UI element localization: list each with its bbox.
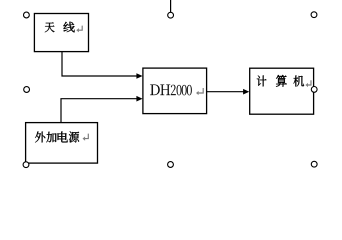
text glyph 电: [58, 132, 68, 143]
handle circle: [24, 87, 30, 93]
handle circle: [311, 161, 317, 167]
box: computer 计算机: [250, 68, 314, 114]
text glyph 2: [171, 85, 176, 95]
handle circle: [168, 12, 174, 18]
text glyph 天: [45, 22, 55, 32]
return mark after 机: [307, 80, 311, 85]
handle circle: [311, 87, 317, 93]
return mark after 源: [84, 134, 89, 139]
return mark after 线: [78, 26, 83, 31]
wire: power to DH2000 connector with arrowhead: [61, 99, 138, 123]
box: antenna 天线: [34, 14, 88, 52]
handle circle: [24, 12, 30, 18]
handle circle: [23, 162, 29, 168]
wire: vertical stub to top edge: [170, 0, 172, 12]
text glyph 0: [187, 85, 192, 95]
wire: antenna to DH2000 connector with arrowhead: [62, 52, 138, 76]
text glyph 计: [257, 75, 267, 86]
text glyph D: [150, 85, 160, 96]
box: DH2000: [143, 68, 207, 114]
return mark after DH2000: [197, 88, 203, 93]
text glyph 线: [63, 22, 74, 32]
box: external power 外加电源: [26, 123, 98, 164]
text glyph 源: [69, 132, 79, 143]
text glyph 加: [46, 132, 56, 143]
text glyph 算: [276, 75, 287, 87]
handle circle: [168, 162, 174, 168]
handle circle: [311, 12, 317, 18]
text glyph 外: [35, 132, 45, 143]
text glyph H: [160, 85, 170, 96]
text glyph 机: [293, 75, 304, 86]
text glyph 0: [177, 85, 182, 95]
wire: DH2000 to computer connector with arrowhead: [207, 91, 245, 93]
text glyph 0: [182, 85, 187, 95]
